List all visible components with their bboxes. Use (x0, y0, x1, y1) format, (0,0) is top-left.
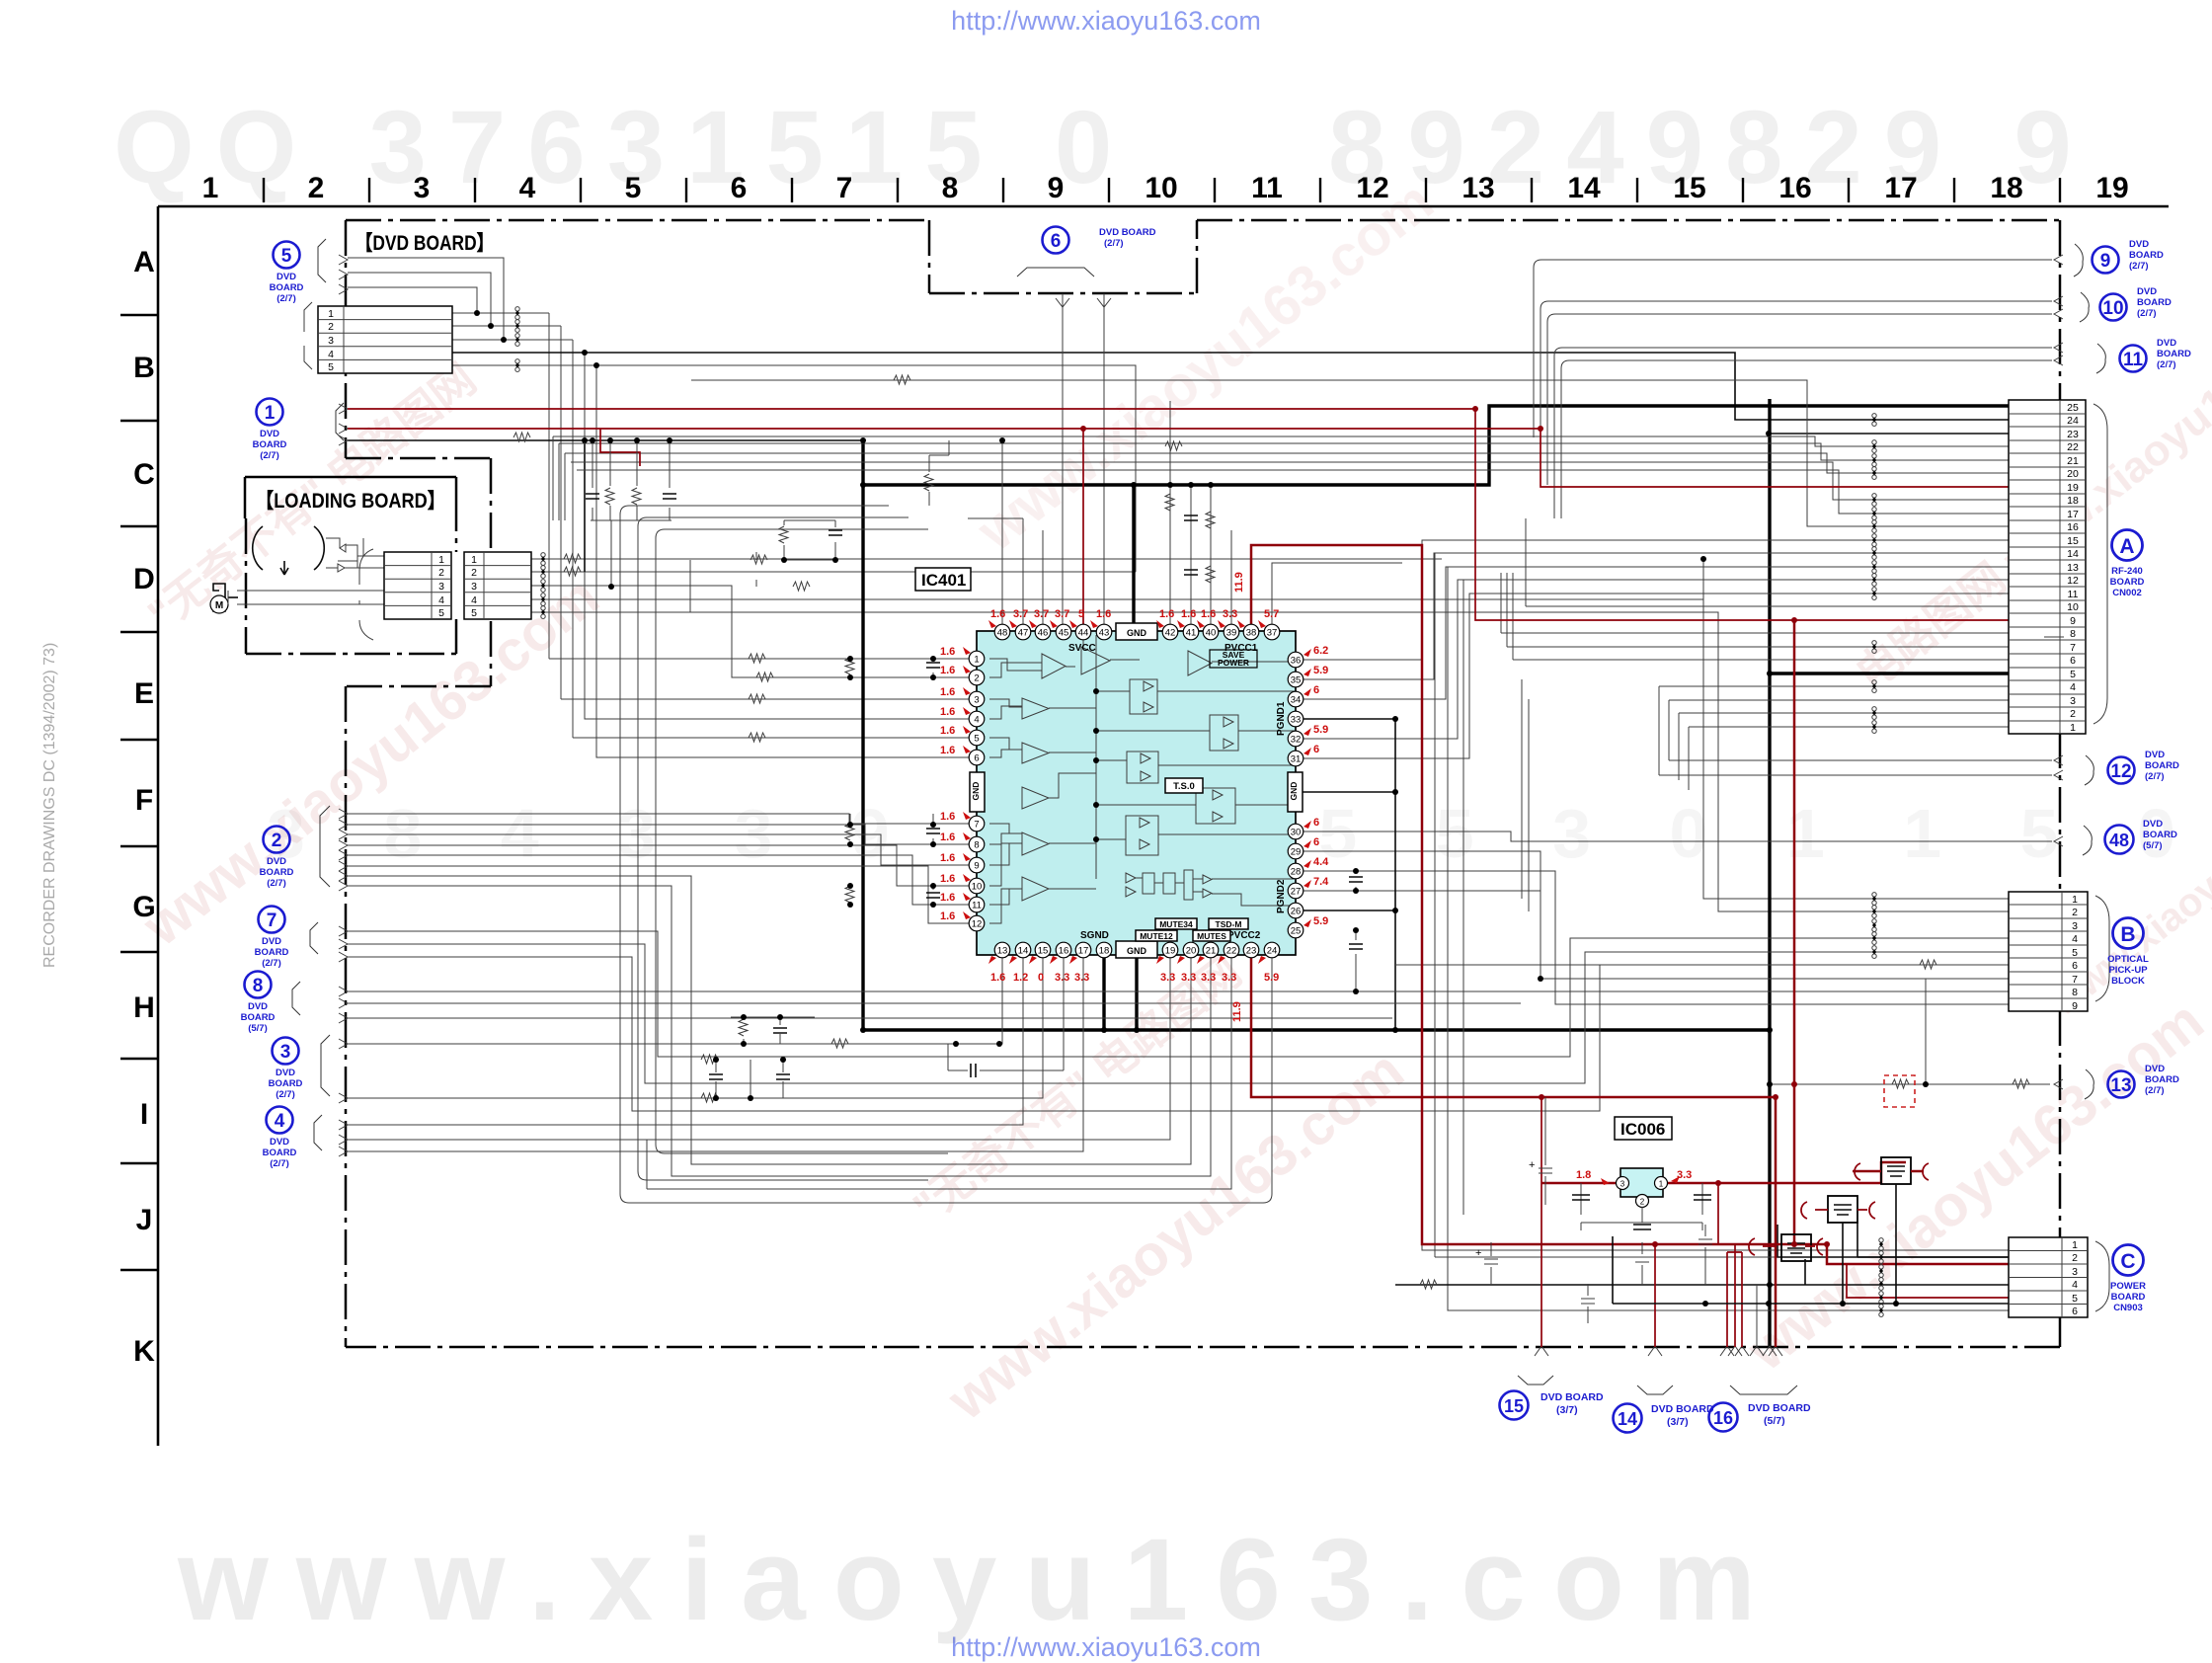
svg-text:8: 8 (942, 172, 959, 204)
svg-text:GND: GND (1289, 782, 1299, 801)
svg-text:BOARD: BOARD (263, 1148, 297, 1158)
svg-text:0: 0 (1038, 972, 1044, 984)
svg-text:1: 1 (438, 554, 444, 566)
svg-text:6: 6 (1313, 836, 1319, 848)
svg-text:1.6: 1.6 (940, 831, 955, 843)
svg-text:34: 34 (1291, 695, 1302, 706)
svg-text:13: 13 (2110, 1075, 2131, 1096)
svg-text:4: 4 (275, 1111, 285, 1132)
svg-text:RF-240: RF-240 (2111, 566, 2143, 577)
svg-text:BOARD: BOARD (241, 1012, 276, 1023)
svg-text:DVD: DVD (2137, 286, 2157, 297)
svg-text:QQ 37631515 0: QQ 37631515 0 (114, 90, 1134, 205)
svg-text:DVD: DVD (276, 1068, 295, 1078)
svg-text:(2/7): (2/7) (2137, 308, 2157, 319)
svg-text:7.4: 7.4 (1313, 876, 1329, 888)
svg-text:11.9: 11.9 (1231, 1001, 1243, 1022)
svg-text:5.9: 5.9 (1313, 915, 1328, 927)
svg-text:A: A (133, 246, 155, 278)
svg-text:9: 9 (2072, 1000, 2078, 1012)
svg-text:8: 8 (253, 976, 264, 996)
svg-text:6: 6 (731, 172, 748, 204)
svg-text:13: 13 (2067, 562, 2079, 574)
svg-text:C: C (2120, 1250, 2135, 1273)
svg-text:BOARD: BOARD (2137, 297, 2172, 308)
svg-text:22: 22 (2067, 441, 2079, 453)
svg-text:19: 19 (2095, 172, 2128, 204)
svg-text:2: 2 (2072, 907, 2078, 918)
svg-text:www.xiaoyu163.com: www.xiaoyu163.com (1735, 989, 2212, 1384)
svg-text:48: 48 (997, 628, 1008, 639)
svg-text:30: 30 (1291, 828, 1302, 838)
svg-text:5: 5 (2072, 1293, 2078, 1305)
svg-text:18: 18 (1099, 946, 1110, 957)
svg-text:32: 32 (1291, 735, 1302, 746)
svg-text:15: 15 (1673, 172, 1705, 204)
svg-text:DVD: DVD (276, 272, 296, 282)
svg-text:BOARD: BOARD (2129, 250, 2164, 261)
svg-text:DVD BOARD: DVD BOARD (1099, 227, 1156, 238)
svg-text:3: 3 (414, 172, 431, 204)
svg-text:2: 2 (272, 831, 282, 851)
svg-text:D: D (133, 563, 155, 595)
svg-text:1.6: 1.6 (940, 911, 955, 922)
svg-text:6: 6 (974, 753, 979, 764)
svg-text:DVD: DVD (2145, 750, 2165, 760)
svg-text:1.6: 1.6 (940, 686, 955, 698)
svg-text:2: 2 (1640, 1198, 1645, 1207)
svg-text:http://www.xiaoyu163.com: http://www.xiaoyu163.com (951, 6, 1261, 36)
svg-text:15: 15 (1504, 1396, 1524, 1416)
svg-text:DVD: DVD (2143, 819, 2163, 830)
svg-text:3: 3 (974, 695, 979, 706)
svg-text:5: 5 (438, 607, 444, 619)
svg-text:10: 10 (2102, 298, 2123, 319)
svg-text:B: B (2120, 923, 2135, 946)
svg-text:3.3: 3.3 (1201, 972, 1216, 984)
svg-text:13: 13 (997, 946, 1008, 957)
svg-text:20: 20 (2067, 468, 2079, 480)
svg-text:1.6: 1.6 (1096, 608, 1111, 620)
svg-text:41: 41 (1186, 628, 1197, 639)
svg-text:6: 6 (1313, 684, 1319, 696)
svg-text:39: 39 (1226, 628, 1237, 639)
svg-text:PGND1: PGND1 (1276, 701, 1287, 736)
svg-text:BLOCK: BLOCK (2111, 976, 2145, 987)
svg-text:5.9: 5.9 (1313, 724, 1328, 736)
svg-text:3: 3 (471, 581, 477, 593)
svg-text:SVCC: SVCC (1068, 643, 1096, 654)
svg-text:BOARD: BOARD (2111, 1292, 2146, 1303)
svg-text:(3/7): (3/7) (1556, 1404, 1578, 1416)
svg-text:17: 17 (1884, 172, 1917, 204)
svg-text:A: A (2119, 535, 2134, 558)
svg-text:9: 9 (2100, 251, 2111, 272)
svg-text:4: 4 (471, 594, 477, 606)
svg-text:16: 16 (1713, 1408, 1733, 1428)
svg-text:21: 21 (1206, 946, 1217, 957)
svg-text:G: G (132, 891, 155, 923)
svg-text:C: C (133, 458, 155, 491)
svg-text:OPTICAL: OPTICAL (2107, 954, 2149, 965)
svg-text:11.9: 11.9 (1233, 572, 1245, 593)
svg-text:1.6: 1.6 (940, 852, 955, 864)
svg-text:89249829 9: 89249829 9 (1328, 90, 2093, 205)
svg-text:1.6: 1.6 (1159, 608, 1174, 620)
svg-text:1: 1 (2072, 894, 2078, 906)
svg-text:3.3: 3.3 (1055, 972, 1069, 984)
svg-text:BOARD: BOARD (260, 867, 294, 878)
svg-text:2: 2 (308, 172, 325, 204)
svg-text:IC006: IC006 (1620, 1120, 1665, 1139)
svg-text:45: 45 (1059, 628, 1069, 639)
svg-text:MUTE34: MUTE34 (1159, 919, 1193, 929)
svg-text:5: 5 (471, 607, 477, 619)
svg-text:6.2: 6.2 (1313, 645, 1328, 657)
svg-text:4: 4 (519, 172, 536, 204)
svg-text:DVD BOARD: DVD BOARD (1748, 1402, 1811, 1414)
svg-text:23: 23 (2067, 429, 2079, 440)
svg-text:5: 5 (328, 361, 334, 373)
svg-text:DVD: DVD (248, 1001, 268, 1012)
svg-text:www.xiaoyu163.com: www.xiaoyu163.com (177, 1515, 1783, 1645)
svg-text:DVD: DVD (267, 856, 286, 867)
svg-text:47: 47 (1018, 628, 1029, 639)
svg-text:2: 2 (2072, 1252, 2078, 1264)
svg-text:6: 6 (2072, 960, 2078, 972)
svg-text:3.3: 3.3 (1181, 972, 1196, 984)
svg-text:5: 5 (281, 246, 292, 267)
svg-text:22: 22 (1226, 946, 1237, 957)
svg-text:6: 6 (1313, 744, 1319, 755)
svg-text:(5/7): (5/7) (248, 1023, 268, 1034)
svg-text:3.7: 3.7 (1055, 608, 1069, 620)
svg-text:4.4: 4.4 (1313, 856, 1329, 868)
svg-text:1: 1 (328, 308, 334, 320)
svg-text:TSD-M: TSD-M (1216, 919, 1242, 929)
svg-text:GND: GND (1127, 946, 1147, 956)
svg-text:(2/7): (2/7) (262, 958, 281, 969)
svg-text:18: 18 (1990, 172, 2022, 204)
svg-text:CN002: CN002 (2112, 588, 2142, 598)
svg-text:www.xiaoyu163.com: www.xiaoyu163.com (965, 169, 1445, 564)
svg-text:9: 9 (1048, 172, 1065, 204)
svg-text:BOARD: BOARD (269, 1078, 303, 1089)
svg-text:+: + (1475, 1247, 1481, 1259)
svg-text:3: 3 (2072, 1266, 2078, 1278)
svg-text:+: + (1529, 1159, 1535, 1171)
svg-text:4: 4 (2072, 933, 2078, 945)
svg-text:3: 3 (1620, 1180, 1625, 1189)
svg-text:35: 35 (1291, 675, 1302, 686)
svg-text:26: 26 (1291, 907, 1302, 917)
svg-text:7: 7 (836, 172, 853, 204)
svg-text:5: 5 (974, 734, 979, 745)
svg-text:(2/7): (2/7) (276, 1089, 295, 1100)
svg-text:DVD: DVD (262, 936, 281, 947)
svg-text:MUTES: MUTES (1197, 931, 1226, 941)
svg-text:8: 8 (2070, 628, 2076, 640)
svg-text:25: 25 (2067, 402, 2079, 414)
svg-text:(2/7): (2/7) (1104, 238, 1124, 249)
svg-text:8: 8 (2072, 987, 2078, 998)
svg-text:F: F (135, 784, 153, 817)
svg-text:3.7: 3.7 (1013, 608, 1028, 620)
svg-text:BOARD: BOARD (2143, 830, 2177, 840)
svg-text:14: 14 (2067, 548, 2079, 560)
svg-text:3.3: 3.3 (1222, 972, 1236, 984)
svg-text:6: 6 (1051, 231, 1062, 252)
svg-text:5.9: 5.9 (1313, 665, 1328, 676)
svg-text:24: 24 (1267, 946, 1278, 957)
svg-text:3: 3 (328, 335, 334, 347)
svg-text:RECORDER DRAWINGS DC (1394/200: RECORDER DRAWINGS DC (1394/2002) 73) (41, 643, 58, 968)
svg-text:POWER: POWER (2110, 1281, 2146, 1292)
svg-text:1.2: 1.2 (1013, 972, 1028, 984)
svg-text:(5/7): (5/7) (2143, 840, 2163, 851)
svg-text:1.6: 1.6 (1201, 608, 1216, 620)
svg-text:(2/7): (2/7) (2145, 1085, 2165, 1096)
svg-text:(5/7): (5/7) (1764, 1415, 1785, 1427)
svg-text:43: 43 (1099, 628, 1110, 639)
svg-text:BOARD: BOARD (2145, 1074, 2179, 1085)
svg-text:6: 6 (2072, 1306, 2078, 1317)
svg-text:GND: GND (1127, 628, 1147, 638)
svg-text:15: 15 (2067, 535, 2079, 547)
svg-text:M: M (215, 600, 223, 611)
svg-text:27: 27 (1291, 887, 1302, 898)
svg-text:29: 29 (1291, 847, 1302, 858)
svg-text:11: 11 (2123, 350, 2144, 370)
svg-text:(2/7): (2/7) (260, 450, 279, 461)
svg-text:19: 19 (2067, 482, 2079, 494)
svg-text:DVD: DVD (2145, 1064, 2165, 1074)
svg-text:3.3: 3.3 (1677, 1169, 1692, 1181)
svg-text:(2/7): (2/7) (2129, 261, 2149, 272)
svg-text:4: 4 (974, 715, 979, 726)
svg-text:1.6: 1.6 (940, 665, 955, 676)
svg-text:J: J (136, 1204, 153, 1236)
svg-text:2: 2 (2070, 708, 2076, 720)
svg-text:12: 12 (2110, 761, 2131, 782)
svg-text:5: 5 (625, 172, 642, 204)
svg-text:SGND: SGND (1080, 930, 1109, 941)
svg-text:1: 1 (2070, 722, 2076, 734)
svg-text:1.6: 1.6 (990, 972, 1005, 984)
svg-text:1.6: 1.6 (940, 892, 955, 904)
svg-text:7: 7 (267, 911, 277, 931)
svg-text:MUTE12: MUTE12 (1140, 931, 1173, 941)
svg-text:40: 40 (1206, 628, 1217, 639)
svg-text:16: 16 (1059, 946, 1069, 957)
svg-text:BOARD: BOARD (253, 439, 287, 450)
svg-text:6: 6 (2070, 655, 2076, 667)
svg-text:15: 15 (1038, 946, 1049, 957)
svg-text:1: 1 (974, 655, 979, 666)
svg-text:BOARD: BOARD (2157, 349, 2191, 359)
svg-text:8: 8 (974, 840, 979, 851)
svg-text:37: 37 (1267, 628, 1278, 639)
svg-text:GND: GND (971, 782, 981, 801)
svg-text:3.7: 3.7 (1034, 608, 1049, 620)
svg-text:7: 7 (974, 820, 979, 831)
svg-text:11: 11 (2068, 589, 2079, 600)
svg-text:19: 19 (1165, 946, 1176, 957)
svg-text:B: B (133, 352, 155, 384)
svg-text:16: 16 (2067, 521, 2079, 533)
svg-text:1.6: 1.6 (940, 811, 955, 823)
svg-text:42: 42 (1165, 628, 1176, 639)
svg-text:3: 3 (280, 1042, 291, 1063)
svg-text:1.6: 1.6 (940, 706, 955, 718)
svg-text:DVD: DVD (270, 1137, 289, 1148)
svg-text:12: 12 (972, 919, 983, 930)
svg-text:DVD: DVD (2157, 338, 2176, 349)
svg-text:21: 21 (2067, 455, 2079, 467)
svg-text:BOARD: BOARD (2145, 760, 2179, 771)
svg-text:5.7: 5.7 (1264, 608, 1279, 620)
svg-text:3: 3 (438, 581, 444, 593)
svg-text:3: 3 (2070, 695, 2076, 707)
svg-text:2: 2 (471, 567, 477, 579)
svg-text:13: 13 (1461, 172, 1494, 204)
svg-text:31: 31 (1291, 754, 1302, 765)
svg-text:1: 1 (2072, 1239, 2078, 1251)
svg-text:28: 28 (1291, 867, 1302, 878)
svg-text:9: 9 (974, 861, 979, 872)
svg-text:7: 7 (2072, 974, 2078, 986)
svg-text:PGND2: PGND2 (1276, 879, 1287, 913)
svg-text:1: 1 (202, 172, 219, 204)
svg-text:4: 4 (2070, 681, 2076, 693)
svg-text:1.6: 1.6 (940, 725, 955, 737)
svg-text:H: H (133, 991, 155, 1024)
svg-text:5: 5 (2072, 947, 2078, 959)
svg-text:2: 2 (974, 673, 979, 684)
svg-text:3.3: 3.3 (1223, 608, 1237, 620)
svg-text:【DVD BOARD】: 【DVD BOARD】 (355, 232, 494, 255)
svg-text:IC401: IC401 (921, 571, 966, 590)
svg-text:1: 1 (1659, 1180, 1664, 1189)
svg-text:5.9: 5.9 (1264, 972, 1279, 984)
svg-text:DVD: DVD (2129, 239, 2149, 250)
svg-text:10: 10 (972, 882, 983, 893)
svg-text:CN903: CN903 (2113, 1303, 2143, 1313)
svg-text:DVD: DVD (260, 429, 279, 439)
svg-text:T.S.0: T.S.0 (1173, 781, 1195, 792)
svg-text:12: 12 (2067, 575, 2079, 587)
svg-text:23: 23 (1246, 946, 1257, 957)
svg-text:3.3: 3.3 (1160, 972, 1175, 984)
svg-text:36: 36 (1291, 656, 1302, 667)
svg-text:BOARD: BOARD (2110, 577, 2145, 588)
svg-text:1.8: 1.8 (1576, 1169, 1591, 1181)
svg-text:1: 1 (265, 403, 276, 424)
svg-text:K: K (133, 1335, 155, 1368)
svg-text:10: 10 (1145, 172, 1177, 204)
svg-text:(2/7): (2/7) (2157, 359, 2176, 370)
svg-text:【LOADING BOARD】: 【LOADING BOARD】 (256, 490, 445, 513)
svg-text:1.6: 1.6 (1181, 608, 1196, 620)
svg-text:12: 12 (1356, 172, 1388, 204)
svg-text:DVD BOARD: DVD BOARD (1540, 1391, 1604, 1403)
svg-text:14: 14 (1567, 172, 1601, 204)
svg-text:38: 38 (1246, 628, 1257, 639)
svg-text:10: 10 (2067, 601, 2079, 613)
svg-text:1: 1 (471, 554, 477, 566)
svg-text:7: 7 (2070, 642, 2076, 654)
svg-text:44: 44 (1078, 628, 1089, 639)
svg-text:16: 16 (1778, 172, 1811, 204)
svg-text:14: 14 (1618, 1409, 1637, 1429)
svg-text:20: 20 (1186, 946, 1197, 957)
svg-text:1.6: 1.6 (940, 873, 955, 885)
svg-text:3: 3 (2072, 920, 2078, 932)
svg-text:33: 33 (1291, 715, 1302, 726)
svg-text:1.6: 1.6 (940, 745, 955, 756)
svg-text:E: E (134, 677, 154, 710)
svg-text:(2/7): (2/7) (2145, 771, 2165, 782)
svg-text:17: 17 (2067, 509, 2079, 520)
svg-text:1.6: 1.6 (990, 608, 1005, 620)
svg-text:BOARD: BOARD (255, 947, 289, 958)
svg-text:www.xiaoyu163.com: www.xiaoyu163.com (130, 564, 610, 959)
svg-text:17: 17 (1078, 946, 1089, 957)
svg-text:(3/7): (3/7) (1667, 1416, 1689, 1428)
svg-text:6: 6 (1313, 817, 1319, 829)
svg-text:5: 5 (2070, 669, 2076, 680)
svg-text:4: 4 (2072, 1279, 2078, 1291)
svg-text:DVD BOARD: DVD BOARD (1651, 1403, 1714, 1415)
svg-text:2: 2 (438, 567, 444, 579)
svg-text:BOARD: BOARD (270, 282, 304, 293)
svg-text:4: 4 (438, 594, 444, 606)
svg-text:25: 25 (1291, 926, 1302, 937)
svg-text:(2/7): (2/7) (267, 878, 286, 889)
svg-text:PVCC2: PVCC2 (1227, 930, 1261, 941)
svg-text:5: 5 (1078, 608, 1084, 620)
svg-text:18: 18 (2067, 495, 2079, 507)
svg-text:(2/7): (2/7) (276, 293, 296, 304)
svg-text:11: 11 (1251, 172, 1283, 204)
svg-text:9: 9 (2070, 615, 2076, 627)
svg-text:11: 11 (972, 901, 982, 911)
svg-text:(2/7): (2/7) (270, 1158, 289, 1169)
svg-text:2: 2 (328, 321, 334, 333)
svg-text:I: I (140, 1098, 148, 1131)
svg-text:48: 48 (2109, 831, 2129, 850)
svg-text:PICK-UP: PICK-UP (2108, 965, 2148, 976)
svg-text:14: 14 (1018, 946, 1029, 957)
svg-text:4: 4 (328, 349, 334, 360)
svg-text:POWER: POWER (1218, 658, 1249, 668)
svg-text:3.3: 3.3 (1074, 972, 1089, 984)
svg-text:24: 24 (2067, 415, 2079, 427)
svg-text:1.6: 1.6 (940, 646, 955, 658)
svg-text:46: 46 (1038, 628, 1049, 639)
